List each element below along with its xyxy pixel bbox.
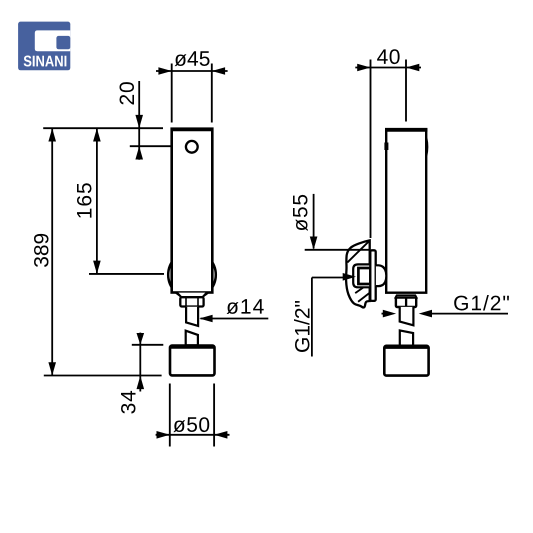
outlet nut [180,297,203,306]
outlet chamfer (side) [396,295,417,297]
outlet chamfer [177,293,207,298]
dimension ø55 (leader) [290,193,370,250]
svg-text:40: 40 [377,46,401,69]
svg-text:G1/2": G1/2" [292,300,315,353]
wall escutcheon (bell) [346,240,370,307]
outlet pipe upper piece (break) [186,307,198,326]
connecting nipple [376,265,386,286]
svg-text:ø14: ø14 [226,296,265,319]
outlet pipe upper piece (side, break) [400,307,414,325]
svg-text:G1/2": G1/2" [453,292,511,315]
nut facet line [405,298,407,307]
svg-text:165: 165 [73,181,96,219]
flush cap top band (side) [385,346,428,349]
outlet pipe lower piece (break) [186,331,198,346]
svg-text:389: 389 [31,233,54,268]
body top edge thick [385,128,427,132]
dimension ø45 [156,48,228,123]
svg-text:34: 34 [118,389,141,414]
seam tick left edge [384,143,388,151]
bell surface line [347,241,368,262]
seam bump right edge [425,138,428,156]
dimension ø50 [156,384,230,447]
dimension 165 [73,128,164,274]
wall flange plate ø55 (edge view) [370,250,375,301]
inlet socket bore [358,268,370,284]
svg-text:ø55: ø55 [290,193,313,231]
sensor window [186,141,198,153]
logo SINANI [18,22,70,71]
svg-text:ø50: ø50 [173,414,211,437]
dimension 34 [118,333,164,415]
inlet socket outer [353,264,370,287]
dimension ø14 (leader) [199,296,268,323]
svg-text:20: 20 [116,81,139,106]
flange disc ø55 behind body [168,251,216,299]
bell lower surface lines [355,283,369,293]
nut facet lines [185,298,187,307]
dimension 20 [43,81,171,160]
flush cap (side) [384,346,428,376]
outlet nut (side) [396,298,416,307]
svg-text:SINANI: SINANI [23,53,67,70]
label G1/2" right (leader) [382,292,511,317]
label G1/2" left (leader) [292,273,357,357]
dimension 40 [355,46,421,238]
dimension 389 [31,128,162,375]
flush cap top band [170,346,214,349]
body (front view) [172,129,213,293]
outlet pipe lower piece (side, break) [400,330,413,345]
svg-text:ø45: ø45 [174,48,210,71]
flush cap ø50 [170,346,215,376]
body (side view) [386,129,426,292]
body top edge (thick) [171,127,214,131]
